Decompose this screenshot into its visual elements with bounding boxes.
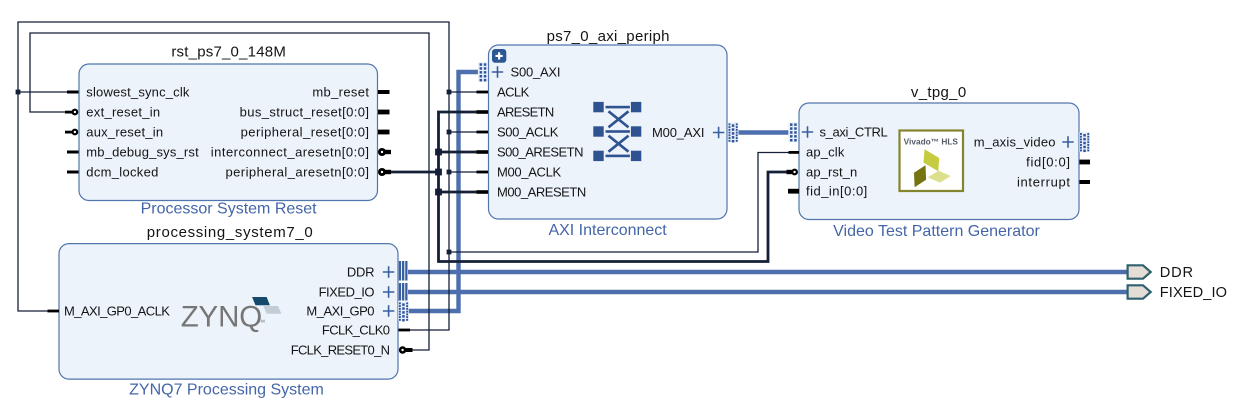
svg-text:Vivado™ HLS: Vivado™ HLS <box>904 136 959 146</box>
svg-text:FCLK_CLK0: FCLK_CLK0 <box>322 322 390 337</box>
pin stub mb_debug_sys_rst <box>67 151 79 154</box>
svg-text:ARESETN: ARESETN <box>497 104 554 119</box>
external port FIXED_IO <box>1128 285 1151 298</box>
wire net peripheral_aresetn trunk (bus) <box>439 112 788 262</box>
label pin fid[0:0] <box>1026 154 1071 169</box>
svg-text:M_AXI_GP0: M_AXI_GP0 <box>306 303 374 318</box>
label pin M00_ACLK <box>497 164 561 179</box>
wire net M_AXI_GP0 to S00_AXI (blue interface bus) <box>408 72 479 311</box>
interface stub FIXED_IO <box>399 283 408 301</box>
junction aresetn net 1 <box>435 149 442 156</box>
svg-text:DDR: DDR <box>1160 265 1194 281</box>
title v_tpg_0 <box>911 84 967 101</box>
pin stub ARESETN <box>477 110 489 114</box>
svg-text:ACLK: ACLK <box>497 84 530 99</box>
title rst_ps7_0_148M <box>171 43 286 60</box>
pin stub ext_reset_in <box>65 111 72 114</box>
subtitle ZYNQ7 Processing System <box>129 382 324 399</box>
junction clock net 3 <box>447 130 452 135</box>
junction clock net 5 <box>447 250 452 255</box>
svg-text:fid_in[0:0]: fid_in[0:0] <box>806 183 868 198</box>
svg-text:slowest_sync_clk: slowest_sync_clk <box>86 84 190 99</box>
wire clock branch to S00_ACLK <box>449 131 477 133</box>
pin stub interconnect_aresetn <box>385 150 391 154</box>
svg-text:s_axi_CTRL: s_axi_CTRL <box>820 124 888 139</box>
icon ZYNQ logo (processing_system7_0) <box>181 297 282 334</box>
svg-text:ZYNQ: ZYNQ <box>181 301 262 334</box>
pin stub ap_rst_n <box>787 170 792 174</box>
label pin dcm_locked <box>86 164 158 179</box>
interface stub M_AXI_GP0 <box>398 301 409 321</box>
label pin m_axis_video <box>974 134 1056 149</box>
label pin bus_struct_reset[0:0] <box>240 104 370 119</box>
wire peripheral_aresetn feed from pin <box>390 171 439 174</box>
interface stub DDR <box>399 261 408 281</box>
label pin FCLK_CLK0 <box>322 322 390 337</box>
wire clock branch to slowest_sync_clk <box>18 91 67 93</box>
pin stub M_AXI_GP0_ACLK <box>48 310 60 313</box>
wire net M00_AXI to s_axi_CTRL (blue interface bus) <box>739 130 790 134</box>
junction clock net 4 <box>447 170 452 175</box>
svg-text:FCLK_RESET0_N: FCLK_RESET0_N <box>291 342 390 357</box>
plus M00_AXI <box>713 127 724 138</box>
svg-text:ext_reset_in: ext_reset_in <box>86 104 160 119</box>
subtitle Processor System Reset <box>141 200 318 217</box>
svg-text:peripheral_reset[0:0]: peripheral_reset[0:0] <box>241 124 370 139</box>
svg-text:S00_AXI: S00_AXI <box>511 64 561 79</box>
bubble aux_reset_in (active-low) <box>72 129 79 136</box>
bubble FCLK_RESET0_N (active-low) <box>399 346 407 354</box>
svg-text:AXI Interconnect: AXI Interconnect <box>548 222 667 239</box>
label pin M_AXI_GP0 <box>306 303 374 318</box>
label pin M_AXI_GP0_ACLK <box>64 303 170 318</box>
svg-text:™: ™ <box>258 320 265 327</box>
junction aresetn net 3 <box>435 189 442 196</box>
plus S00_AXI <box>492 66 503 77</box>
svg-text:M00_ACLK: M00_ACLK <box>497 164 561 179</box>
wire clock branch to M00_ACLK <box>449 171 477 173</box>
label pin ACLK <box>497 84 530 99</box>
bubble ap_rst_n (active-low) <box>791 169 798 176</box>
svg-text:v_tpg_0: v_tpg_0 <box>911 84 967 101</box>
svg-text:m_axis_video: m_axis_video <box>974 134 1056 149</box>
wire net FIXED_IO to external port (blue interface bus) <box>408 290 1128 294</box>
label port FIXED_IO <box>1160 285 1227 301</box>
label pin interrupt <box>1017 174 1071 189</box>
svg-text:ap_clk: ap_clk <box>806 145 845 160</box>
svg-text:mb_debug_sys_rst: mb_debug_sys_rst <box>86 144 199 159</box>
wire net FCLK_RESET0_N to ext_reset_in <box>30 33 429 350</box>
label pin ap_clk <box>806 145 845 160</box>
label pin peripheral_reset[0:0] <box>241 124 370 139</box>
pin stub fid <box>1080 160 1091 165</box>
wire clock branch to ap_clk <box>449 153 789 253</box>
svg-text:FIXED_IO: FIXED_IO <box>319 284 375 299</box>
external port DDR <box>1128 265 1151 278</box>
interface stub m_axis_video <box>1079 132 1090 152</box>
title processing_system7_0 <box>147 224 314 241</box>
label pin ap_rst_n <box>806 164 857 179</box>
plus FIXED_IO <box>383 286 394 297</box>
pin stub M00_ARESETN <box>477 190 489 194</box>
pin stub fid_in <box>788 189 799 194</box>
label pin aux_reset_in <box>86 124 163 139</box>
subtitle AXI Interconnect <box>548 222 667 239</box>
plus M_AXI_GP0 <box>383 305 394 316</box>
label pin FCLK_RESET0_N <box>291 342 390 357</box>
wire clock branch to ACLK <box>449 91 477 93</box>
label pin M00_ARESETN <box>497 184 586 199</box>
svg-text:aux_reset_in: aux_reset_in <box>86 124 163 139</box>
plus s_axi_CTRL <box>802 126 813 137</box>
svg-text:peripheral_aresetn[0:0]: peripheral_aresetn[0:0] <box>225 164 369 179</box>
label pin peripheral_aresetn[0:0] <box>225 164 369 179</box>
svg-text:M00_ARESETN: M00_ARESETN <box>497 184 586 199</box>
svg-text:mb_reset: mb_reset <box>312 84 369 99</box>
junction clock net 1 <box>16 90 21 95</box>
label pin S00_ARESETN <box>497 144 583 159</box>
pin stub aux_reset_in <box>65 131 72 134</box>
plus m_axis_video <box>1062 136 1073 147</box>
svg-text:S00_ACLK: S00_ACLK <box>497 124 559 139</box>
icon crossbar (AXI Interconnect) <box>593 102 641 161</box>
label pin slowest_sync_clk <box>86 84 190 99</box>
svg-text:DDR: DDR <box>347 264 374 279</box>
subtitle Video Test Pattern Generator <box>833 223 1040 240</box>
label pin S00_ACLK <box>497 124 559 139</box>
svg-text:M00_AXI: M00_AXI <box>652 125 704 140</box>
svg-text:fid[0:0]: fid[0:0] <box>1026 154 1071 169</box>
pin stub peripheral_aresetn <box>385 170 391 174</box>
svg-text:processing_system7_0: processing_system7_0 <box>147 224 314 241</box>
label pin M00_AXI <box>652 125 704 140</box>
block rst_ps7_0_148M (Processor System Reset) <box>79 64 378 201</box>
svg-text:rst_ps7_0_148M: rst_ps7_0_148M <box>171 43 286 60</box>
svg-text:interrupt: interrupt <box>1017 174 1071 189</box>
block processing_system7_0 (ZYNQ7 Processing System) <box>59 244 398 380</box>
pin stub M00_ACLK <box>477 171 489 174</box>
svg-text:ps7_0_axi_periph: ps7_0_axi_periph <box>547 28 670 45</box>
block v_tpg_0 (Video Test Pattern Generator) <box>799 103 1079 220</box>
pin stub mb_reset <box>378 90 390 94</box>
label pin s_axi_CTRL <box>820 124 888 139</box>
interface stub s_axi_CTRL <box>788 122 797 142</box>
label pin mb_reset <box>312 84 369 99</box>
bubble ext_reset_in (active-low) <box>72 109 79 116</box>
interface stub S00_AXI <box>478 62 487 82</box>
block ps7_0_axi_periph (AXI Interconnect) <box>489 45 728 219</box>
bubble interconnect_aresetn (active-low) <box>378 148 386 156</box>
pin stub dcm_locked <box>67 171 79 174</box>
label pin fid_in[0:0] <box>806 183 868 198</box>
pin stub S00_ARESETN <box>477 150 489 154</box>
svg-text:S00_ARESETN: S00_ARESETN <box>497 144 583 159</box>
label pin interconnect_aresetn[0:0] <box>211 144 370 159</box>
expand button on axi interconnect <box>492 49 506 63</box>
pin stub slowest_sync_clk <box>67 91 79 94</box>
pin stub FCLK_CLK0 <box>399 329 411 332</box>
svg-text:FIXED_IO: FIXED_IO <box>1160 285 1227 301</box>
wire branch to M00_ARESETN <box>439 191 478 194</box>
svg-text:Video Test Pattern Generator: Video Test Pattern Generator <box>833 223 1040 240</box>
svg-text:dcm_locked: dcm_locked <box>86 164 158 179</box>
svg-text:ZYNQ7 Processing System: ZYNQ7 Processing System <box>129 382 324 399</box>
svg-text:Processor System Reset: Processor System Reset <box>141 200 318 217</box>
pin stub FCLK_RESET0_N <box>406 348 413 352</box>
label pin mb_debug_sys_rst <box>86 144 199 159</box>
label pin S00_AXI <box>511 64 561 79</box>
label pin DDR <box>347 264 374 279</box>
wire branch to S00_ARESETN <box>439 151 478 154</box>
svg-text:bus_struct_reset[0:0]: bus_struct_reset[0:0] <box>240 104 370 119</box>
svg-text:M_AXI_GP0_ACLK: M_AXI_GP0_ACLK <box>64 303 170 318</box>
title ps7_0_axi_periph <box>547 28 670 45</box>
label port DDR <box>1160 265 1194 281</box>
wire net DDR to external port (blue interface bus) <box>408 270 1128 274</box>
plus DDR <box>383 266 394 277</box>
pin stub peripheral_reset <box>378 130 390 135</box>
junction clock net 2 <box>447 90 452 95</box>
svg-text:ap_rst_n: ap_rst_n <box>806 164 857 179</box>
label pin ext_reset_in <box>86 104 160 119</box>
pin stub ap_clk <box>789 151 800 154</box>
bubble peripheral_aresetn (active-low) <box>378 168 386 176</box>
label pin FIXED_IO <box>319 284 375 299</box>
wire clock net FCLK_CLK0 trunk <box>18 22 449 330</box>
pin stub ACLK <box>477 91 489 94</box>
junction aresetn net 2 <box>435 169 442 176</box>
pin stub interrupt <box>1080 180 1091 184</box>
interface stub M00_AXI <box>728 122 739 142</box>
pin stub bus_struct_reset <box>378 110 390 115</box>
svg-text:interconnect_aresetn[0:0]: interconnect_aresetn[0:0] <box>211 144 370 159</box>
pin stub S00_ACLK <box>477 131 489 134</box>
icon Vivado HLS logo (v_tpg_0) <box>900 131 964 192</box>
label pin ARESETN <box>497 104 554 119</box>
